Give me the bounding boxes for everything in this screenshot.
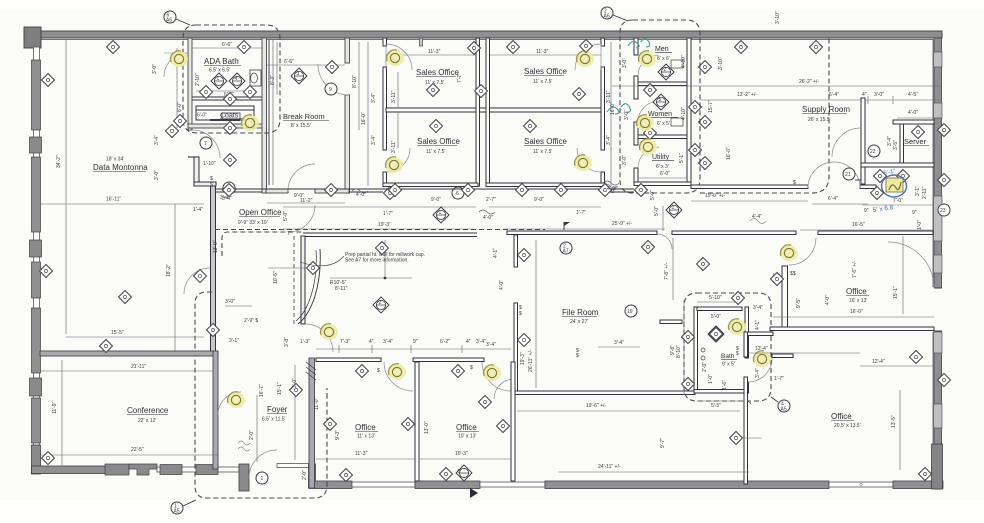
svg-text:Office: Office — [456, 423, 477, 432]
circled reference marker — [778, 400, 790, 412]
svg-text:5'-1": 5'-1" — [679, 153, 685, 163]
svg-text:6'-6": 6'-6" — [284, 59, 294, 65]
svg-text:10' x 13': 10' x 13' — [458, 434, 476, 440]
detail callout diamond-circle marker — [229, 73, 245, 89]
keynote diamond (716,334) — [710, 328, 723, 341]
svg-text:23: 23 — [940, 208, 946, 214]
diamond markers sales — [430, 120, 443, 133]
wall: divider sales A — [386, 108, 604, 112]
svg-text:3'-8": 3'-8" — [284, 337, 290, 347]
keynote diamond (244,47) — [238, 41, 251, 54]
svg-text:3'-4": 3'-4" — [476, 339, 486, 345]
svg-text:12'-2" +/-: 12'-2" +/- — [737, 92, 757, 98]
wall: break room south — [266, 189, 288, 193]
svg-text:Bath: Bath — [721, 353, 735, 360]
svg-text:3'-10": 3'-10" — [718, 57, 724, 70]
svg-text:$$: $$ — [790, 271, 796, 277]
svg-text:Office: Office — [831, 412, 852, 421]
svg-text:3'-4": 3'-4" — [753, 305, 763, 311]
svg-text:5'-0": 5'-0" — [654, 206, 660, 216]
highlighted device marker (329,332) — [320, 324, 338, 340]
svg-text:3'-0": 3'-0" — [624, 110, 630, 120]
exterior wall: bottom-left corner — [32, 445, 41, 474]
svg-text:11'-3": 11'-3" — [355, 451, 368, 457]
svg-text:16'-0": 16'-0" — [361, 112, 367, 125]
svg-text:3'-4": 3'-4" — [371, 93, 377, 103]
svg-text:7'-3": 7'-3" — [340, 339, 350, 345]
detail callout diamond-circle marker — [456, 465, 472, 481]
svg-text:6'-0": 6'-0" — [660, 171, 670, 177]
break room counter — [268, 40, 270, 185]
keynote diamond (382,248) — [376, 242, 389, 255]
svg-text:4'-10": 4'-10" — [681, 107, 687, 120]
keynote diamond (695,107) — [689, 101, 702, 114]
exterior wall: top — [24, 31, 942, 38]
svg-text:4'-0": 4'-0" — [607, 186, 617, 192]
svg-text:4'-1": 4'-1" — [493, 248, 499, 258]
keynote diamond (346,475) — [340, 469, 353, 482]
svg-text:8'-10": 8'-10" — [352, 75, 358, 88]
svg-text:12'-4": 12'-4" — [755, 346, 768, 352]
yellow door markers sales — [386, 50, 404, 66]
green pen scribbles — [628, 39, 650, 48]
keynote diamond (925,474) — [919, 468, 932, 481]
svg-text:19'-3": 19'-3" — [520, 352, 526, 365]
svg-text:2'-9": 2'-9" — [702, 362, 708, 372]
keynote diamond (524,340) — [518, 334, 531, 347]
wall: below server horizontal — [861, 163, 934, 167]
keynote diamond (313,268) — [307, 262, 320, 275]
callout circle 2/A6 top — [601, 7, 613, 19]
note leader + text — [300, 256, 344, 266]
keynote diamond (695,150) — [689, 144, 702, 157]
svg-text:4": 4" — [466, 339, 471, 345]
svg-text:4'-0": 4'-0" — [483, 215, 493, 221]
counter top double line — [303, 232, 477, 234]
svg-text:1'-4": 1'-4" — [193, 207, 203, 213]
bath fixtures — [708, 326, 724, 342]
door: break room south — [288, 164, 315, 191]
svg-text:11' x 7.5': 11' x 7.5' — [426, 149, 445, 155]
wall: break room west — [262, 38, 267, 193]
svg-text:3'-1": 3'-1" — [229, 338, 239, 344]
circled reference marker — [171, 502, 183, 514]
wall: file room south — [514, 391, 695, 395]
wall: supply east partition — [861, 98, 865, 184]
svg-text:5'-5": 5'-5" — [711, 403, 721, 409]
svg-text:22' x 12': 22' x 12' — [138, 418, 156, 424]
door into office2 from file corridor — [494, 379, 514, 399]
keynote diamond (331,190) — [325, 184, 338, 197]
keynote diamond (705,67) — [699, 61, 712, 74]
keynote diamond (650,133) — [644, 127, 657, 140]
door arcs at hall opening — [657, 234, 672, 249]
keynote diamond (362,371) — [356, 365, 369, 378]
svg-text:3'-11": 3'-11" — [391, 90, 397, 103]
svg-text:26' x 15.5': 26' x 15.5' — [808, 117, 831, 123]
highlighted device marker (645,123) — [636, 115, 654, 131]
keynote diamond (395,190) — [389, 184, 402, 197]
svg-text:11'-9": 11'-9" — [52, 401, 58, 414]
svg-text:9": 9" — [912, 210, 917, 216]
svg-text:Coats: Coats — [220, 113, 239, 120]
keynote diamond (641,190) — [635, 184, 648, 197]
svg-text:22: 22 — [870, 149, 876, 155]
svg-text:3'-4": 3'-4" — [371, 135, 377, 145]
keynote diamond (513,47) — [507, 41, 520, 54]
svg-text:See A7 for more information.: See A7 for more information. — [345, 258, 409, 264]
svg-text:Foyer: Foyer — [267, 405, 288, 414]
svg-text:2'-0": 2'-0" — [249, 430, 255, 440]
keynote diamond (458,371) — [452, 365, 465, 378]
svg-text:11'-3": 11'-3" — [428, 49, 441, 55]
wall: ADA bath / coats south — [188, 124, 265, 128]
big dashed region: foyer/millwork — [195, 292, 327, 498]
svg-text:6' x 3': 6' x 3' — [656, 164, 669, 170]
svg-text:A5: A5 — [781, 407, 787, 413]
svg-text:1'-3": 1'-3" — [300, 339, 310, 345]
svg-text:$: $ — [736, 351, 739, 357]
keynote diamond (648,247) — [642, 241, 655, 254]
circled reference marker — [452, 187, 464, 199]
svg-text:6'-0": 6'-0" — [197, 113, 207, 119]
svg-text:2: 2 — [664, 67, 667, 73]
svg-text:3'-0": 3'-0" — [154, 170, 160, 180]
foyer entry jamb — [239, 464, 249, 491]
svg-text:4'-5": 4'-5" — [908, 92, 918, 98]
interior face line along right wall — [932, 40, 934, 288]
keynote diamond (46,271) — [40, 265, 53, 278]
svg-text:2'-10": 2'-10" — [195, 73, 201, 86]
svg-text:4'-4": 4'-4" — [752, 214, 762, 220]
svg-text:$: $ — [576, 353, 579, 359]
door: conference from foyer — [218, 392, 241, 415]
interior face line under top wall — [41, 39, 933, 41]
highlighted device marker (648,147) — [639, 139, 657, 155]
keynote diamond (705,122) — [699, 116, 712, 129]
door: women — [638, 101, 659, 122]
svg-text:22'-5": 22'-5" — [131, 447, 144, 453]
circled reference marker — [223, 182, 235, 194]
svg-text:$: $ — [377, 368, 380, 374]
highlighted device marker (250,123) — [241, 115, 259, 131]
keynote diamond (741,47) — [735, 41, 748, 54]
highlighted device marker (585,59) — [576, 51, 594, 67]
svg-text:9": 9" — [413, 339, 418, 345]
wall: office16 south — [770, 327, 934, 331]
svg-text:24'-11" +/-: 24'-11" +/- — [598, 464, 621, 470]
remaining markers right/top wall — [468, 42, 481, 55]
svg-text:21'-11": 21'-11" — [131, 364, 146, 370]
svg-text:6' x 6': 6' x 6' — [657, 56, 670, 62]
keynote diamond (816,47) — [810, 41, 823, 54]
svg-text:16'-5": 16'-5" — [852, 222, 865, 228]
dashed callout box: core — [620, 20, 700, 193]
svg-text:1: 1 — [261, 476, 264, 482]
svg-text:Server: Server — [904, 137, 927, 146]
svg-text:2: 2 — [379, 300, 382, 306]
svg-text:13'-5": 13'-5" — [891, 415, 897, 428]
svg-text:5'-10": 5'-10" — [709, 295, 722, 301]
door server — [832, 128, 861, 157]
keynote diamond (703,264) — [697, 258, 710, 271]
svg-text:A6: A6 — [166, 18, 172, 24]
door: break room east — [318, 64, 349, 95]
keynote diamond (944,380) — [938, 374, 951, 387]
svg-text:10'-3": 10'-3" — [455, 451, 468, 457]
svg-text:18' x 34': 18' x 34' — [106, 157, 124, 163]
keynote diamond (705,163) — [699, 157, 712, 170]
keynote diamond (390,193) — [384, 187, 397, 200]
svg-text:7'-8" +/-: 7'-8" +/- — [664, 262, 670, 280]
callout circle 6/A6 — [164, 11, 176, 23]
svg-text:2'-9" $: 2'-9" $ — [244, 318, 258, 324]
svg-text:1'-7": 1'-7" — [576, 210, 586, 216]
detail callout diamond-circle marker — [433, 207, 449, 223]
svg-text:19'-6" +/-: 19'-6" +/- — [586, 403, 606, 409]
svg-text:4'-0": 4'-0" — [499, 280, 505, 290]
svg-text:5'-0": 5'-0" — [711, 314, 721, 320]
dashed callout bath — [684, 293, 771, 401]
svg-text:15'-1": 15'-1" — [277, 382, 283, 395]
exterior wall: left (with window segments) — [34, 47, 40, 447]
svg-text:18'-2": 18'-2" — [166, 264, 172, 277]
keynote diamond (250,92) — [244, 86, 257, 99]
wall: core west — [634, 38, 638, 55]
keynote diamond (530,126) — [524, 120, 537, 133]
wall: coats north / ada south shelf — [192, 96, 262, 98]
keynote diamond (230,128) — [224, 122, 237, 135]
svg-text:13'-0": 13'-0" — [424, 421, 430, 434]
svg-text:A5: A5 — [174, 509, 180, 515]
foyer door arc — [249, 450, 277, 478]
keynote diamond (650,90) — [644, 84, 657, 97]
svg-text:9' x 5': 9' x 5' — [722, 362, 735, 368]
svg-text:3'-4": 3'-4" — [486, 342, 496, 348]
yellow highlights top-left — [170, 51, 188, 67]
wall: office2 east — [511, 362, 515, 481]
svg-text:19'-0" +/-: 19'-0" +/- — [705, 193, 725, 199]
svg-text:4'-0": 4'-0" — [825, 295, 831, 305]
svg-text:Utility: Utility — [652, 154, 670, 161]
svg-text:7'-0": 7'-0" — [893, 198, 903, 204]
svg-text:3: 3 — [297, 71, 300, 77]
svg-text:16'-0": 16'-0" — [850, 309, 863, 315]
svg-text:16'-0": 16'-0" — [726, 147, 732, 160]
keynote diamond (944,130) — [938, 124, 951, 137]
double door supply — [808, 162, 834, 188]
wall: supply south — [691, 185, 808, 189]
keynote diamond (113,47) — [107, 41, 120, 54]
highlighted device marker (236,400) — [227, 392, 245, 408]
highlighted device marker (492,373) — [483, 365, 501, 381]
circled reference marker — [256, 472, 268, 484]
wall: core east — [687, 38, 691, 185]
svg-text:3'-4": 3'-4" — [614, 340, 624, 346]
svg-text:6.5' x 6.5': 6.5' x 6.5' — [209, 68, 230, 74]
door: sales B1 east — [575, 44, 601, 70]
door: utility — [638, 147, 659, 168]
svg-text:1'-7": 1'-7" — [774, 376, 784, 382]
svg-text:3'-10": 3'-10" — [775, 11, 781, 24]
highlighted device marker (397,372) — [388, 364, 406, 380]
wall: corridor south (open office north boundary) — [216, 188, 634, 190]
detail callout diamond-circle marker — [653, 94, 669, 110]
keynote diamond (860,421) — [0, 0, 2, 1]
svg-text:26'-2" +/-: 26'-2" +/- — [799, 79, 819, 85]
keynote diamond (433,90) — [427, 84, 440, 97]
svg-text:2'-0": 2'-0" — [292, 378, 298, 388]
svg-text:4'-0": 4'-0" — [908, 110, 918, 116]
wall: hall south, long — [507, 231, 657, 235]
svg-text:Women: Women — [648, 111, 672, 118]
svg-text:3'-0": 3'-0" — [874, 92, 884, 98]
keynote diamond (468,190) — [462, 184, 475, 197]
label office 20.5 — [730, 432, 743, 445]
wall piece office16 sw corner — [660, 320, 682, 324]
keynote diamond (605,190) — [599, 184, 612, 197]
svg-text:$: $ — [210, 182, 213, 188]
svg-text:6'-2": 6'-2" — [440, 339, 450, 345]
pilaster blocks on bottom wall — [105, 464, 129, 475]
wall: offices north — [316, 358, 381, 362]
svg-text:7": 7" — [287, 231, 292, 237]
svg-text:11' x 7.5': 11' x 7.5' — [533, 79, 552, 85]
circled reference marker — [200, 137, 212, 149]
ADA bath fixtures — [250, 70, 261, 86]
svg-text:12'-4": 12'-4" — [872, 359, 885, 365]
keynote diamond (206,92) — [200, 86, 213, 99]
keynote diamond (330,424) — [324, 418, 337, 431]
keynote diamond (880,176) — [874, 170, 887, 183]
svg-text:6'-4": 6'-4" — [828, 196, 838, 202]
svg-text:Conference: Conference — [127, 406, 169, 415]
door arc open office west — [184, 268, 210, 294]
svg-text:3'-0": 3'-0" — [152, 64, 158, 74]
keynote diamond (229,190) — [223, 184, 236, 197]
svg-text:Data Montonna: Data Montonna — [93, 163, 148, 172]
wall: ADA bath west — [188, 38, 192, 130]
svg-text:7'-6" +/-: 7'-6" +/- — [852, 260, 858, 278]
svg-text:10'-5": 10'-5" — [273, 271, 279, 284]
svg-text:9": 9" — [864, 208, 869, 214]
svg-text:11'-0": 11'-0" — [314, 397, 320, 410]
svg-text:3'-4": 3'-4" — [383, 339, 393, 345]
svg-text:$: $ — [470, 365, 473, 371]
wall: divider office1/office2 — [415, 362, 419, 481]
door: sales B2 east — [577, 148, 601, 172]
svg-text:9: 9 — [329, 87, 332, 93]
wall: file room west — [514, 235, 518, 267]
circled reference marker — [868, 145, 880, 157]
svg-text:File Room: File Room — [562, 308, 599, 317]
door right wall — [888, 242, 934, 288]
step wall foyer east down to lower south wall — [309, 464, 316, 488]
detail callout diamond-circle marker — [291, 68, 307, 84]
svg-text:Break Room: Break Room — [283, 112, 325, 121]
coats rod/shelf — [196, 106, 254, 120]
keynote diamond (213,330) — [207, 324, 220, 337]
svg-text:Sales Office: Sales Office — [524, 137, 568, 146]
svg-text:3'-5": 3'-5" — [893, 140, 899, 150]
svg-text:1: 1 — [439, 210, 442, 216]
keynote diamond (503,426) — [497, 420, 510, 433]
keynote diamond (485,402) — [479, 396, 492, 409]
svg-text:6: 6 — [456, 191, 459, 197]
keynote diamond (48,80) — [42, 74, 55, 87]
keynote diamond (916,357) — [910, 351, 923, 364]
svg-text:Office: Office — [355, 423, 376, 432]
fixtures: toilets — [671, 60, 683, 68]
circled reference marker — [560, 242, 572, 254]
wall: foyer east — [309, 358, 315, 488]
svg-text:16'-7": 16'-7" — [259, 384, 265, 397]
svg-text:Office: Office — [846, 287, 867, 296]
keynote diamond (561,190) — [555, 184, 568, 197]
yellow markers core — [638, 51, 656, 67]
svg-text:3'-1": 3'-1" — [915, 186, 921, 196]
svg-text:8'-3": 8'-3" — [270, 75, 276, 85]
svg-text:Men: Men — [655, 46, 669, 53]
svg-text:1'-6": 1'-6" — [722, 380, 728, 390]
svg-text:ADA Bath: ADA Bath — [204, 57, 239, 66]
detail callout diamond-circle marker — [373, 297, 389, 313]
workstation blue circled — [886, 178, 903, 192]
doors on offices north wall — [384, 362, 413, 391]
highlighted device marker (737,327) — [728, 319, 746, 335]
svg-text:3'-4": 3'-4" — [222, 196, 232, 202]
keynote diamond (944,180) — [938, 174, 951, 187]
keynote diamond (903,176) — [897, 170, 910, 183]
svg-text:9'-5": 9'-5" — [796, 298, 802, 308]
detail callout diamond-circle marker — [666, 202, 682, 218]
wall: sales west — [383, 38, 387, 46]
wall: conference north — [40, 351, 218, 356]
keynote diamond (180,121) — [174, 115, 187, 128]
wavy align marks — [238, 441, 250, 451]
svg-text:11' x 13': 11' x 13' — [357, 434, 375, 440]
wall: men/women divider — [638, 82, 687, 86]
svg-text:Supply Room: Supply Room — [802, 105, 850, 114]
millwork dashed counter — [222, 232, 302, 256]
door: men — [638, 55, 659, 76]
svg-text:1'-10": 1'-10" — [203, 161, 216, 167]
svg-text:9'-0": 9'-0" — [431, 197, 441, 203]
keynote diamond (688,337) — [682, 331, 695, 344]
circled reference marker — [325, 83, 337, 95]
svg-text:11'-2": 11'-2" — [300, 198, 313, 204]
svg-text:6' x 5': 6' x 5' — [657, 121, 670, 127]
highlighted device marker (394,165) — [385, 157, 403, 173]
wall: server north — [893, 120, 934, 124]
keynote diamond (777,279) — [771, 273, 784, 286]
svg-text:5'-0": 5'-0" — [283, 211, 289, 221]
keynote diamond (446,474) — [440, 468, 453, 481]
svg-text:4'-10": 4'-10" — [681, 55, 687, 68]
wall: conference east — [213, 351, 218, 469]
wall: utility south — [634, 182, 691, 186]
svg-text:6'-6": 6'-6" — [222, 42, 232, 48]
svg-text:9'-0": 9'-0" — [534, 197, 544, 203]
millwork vertical wall — [301, 236, 305, 324]
svg-text:19: 19 — [627, 309, 633, 315]
dashed callout box: ADA bath — [183, 25, 280, 133]
svg-text:2'-11": 2'-11" — [922, 186, 928, 199]
svg-text:4": 4" — [369, 339, 374, 345]
foyer south window — [277, 464, 309, 468]
circled reference marker — [625, 305, 637, 317]
svg-text:8'-11": 8'-11" — [335, 286, 348, 292]
